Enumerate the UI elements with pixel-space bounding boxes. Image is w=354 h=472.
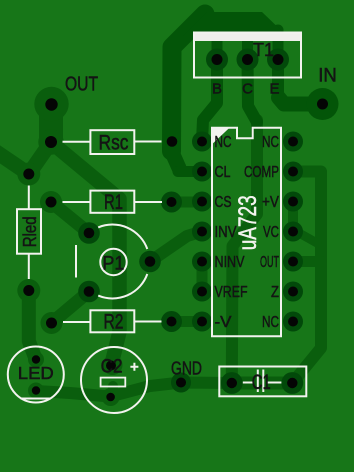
wire vertical to VC diagonal xyxy=(299,233,317,243)
svg-text:Rled: Rled xyxy=(20,216,40,247)
node IC pin12 land xyxy=(283,192,303,212)
wire inside C1 xyxy=(232,377,292,390)
pin C hole xyxy=(242,54,253,65)
node IC pin9 land xyxy=(283,282,303,302)
node IN hole xyxy=(317,99,328,110)
wire T1.E to IN pad xyxy=(272,60,284,95)
wire GND band LED.bottom to C1.left xyxy=(36,383,232,397)
wire COMP right vertical down to C1.right xyxy=(292,172,321,384)
node IC pin4 land xyxy=(192,222,212,242)
pin 12 hole xyxy=(288,197,298,207)
wire NINV to VREF xyxy=(197,262,208,292)
resistor Rled outline xyxy=(17,186,41,280)
svg-text:-V: -V xyxy=(215,314,232,331)
wire T1.C stub up xyxy=(242,30,253,60)
pin B hole xyxy=(212,54,223,65)
op-amp U1 uA723 outline xyxy=(212,128,281,337)
wire R1.left to P1 pad A xyxy=(51,202,89,233)
node R1.right land xyxy=(161,192,182,213)
node R2.left land xyxy=(41,312,63,334)
capacitor C2 outline xyxy=(81,347,147,413)
node GND land xyxy=(171,373,191,393)
node IC pin2 land xyxy=(192,162,212,182)
node P1.C land xyxy=(78,281,100,303)
svg-text:B: B xyxy=(212,81,222,98)
node LED.top hole xyxy=(32,355,40,363)
pin 13 hole xyxy=(288,167,298,177)
svg-text:NC: NC xyxy=(262,134,279,151)
node IC pin14 land xyxy=(283,132,303,152)
node C2.top land xyxy=(103,355,123,375)
node C1.right land xyxy=(281,372,303,394)
pin 4 hole xyxy=(197,227,207,237)
node P1.B land xyxy=(139,251,161,273)
svg-text:NINV: NINV xyxy=(215,254,245,271)
wire P1 pad B to IC INV xyxy=(150,232,202,262)
resistor Rsc outline xyxy=(63,130,162,154)
wire wide band from top blob to Rsc.right xyxy=(172,14,206,151)
pin 2 hole xyxy=(197,167,207,177)
potentiometer P1 outline xyxy=(76,225,147,299)
pin 1 hole xyxy=(197,137,207,147)
node IN land xyxy=(307,88,339,120)
wire R2.left to P1 pad C xyxy=(52,292,90,324)
svg-text:VREF: VREF xyxy=(215,284,248,301)
resistor R1 outline xyxy=(63,191,163,213)
wire OUT pin stub xyxy=(293,256,321,267)
wire T1.C down to under-IC vertical xyxy=(248,60,258,123)
node C1.left land xyxy=(221,372,243,394)
pad holes xyxy=(23,54,328,401)
node LED.bottom hole xyxy=(32,386,40,394)
resistor R2 outline xyxy=(63,310,162,332)
wire T1.E stub up xyxy=(273,30,284,60)
node Rsc.left land xyxy=(38,129,63,154)
copper blob top xyxy=(183,12,287,36)
capacitor C1 outline xyxy=(219,367,306,397)
node LED.bottom land xyxy=(28,383,44,399)
node C2.bottom land xyxy=(102,388,120,406)
wire C net under IC to C1.left xyxy=(232,120,257,383)
svg-text:+V: +V xyxy=(262,194,279,211)
node Rled.bottom land xyxy=(17,279,40,302)
light lands xyxy=(17,87,122,406)
node R2.right land xyxy=(161,311,182,332)
wire T1.B stub up xyxy=(212,30,223,60)
node GND hole xyxy=(176,378,186,388)
svg-text:GND: GND xyxy=(171,359,202,379)
wire Rled.bottom to LED.top xyxy=(29,291,36,361)
pin E hole xyxy=(273,54,284,65)
pin 8 hole xyxy=(288,317,298,327)
pin 6 hole xyxy=(197,287,207,297)
wire Rsc.left diagonal down to C2.top vertical xyxy=(52,143,120,358)
node IC pin7 land xyxy=(192,312,212,332)
svg-text:Z: Z xyxy=(271,284,279,301)
node IC pin13 land xyxy=(283,162,303,182)
node C1.left hole xyxy=(227,378,237,388)
node Rled.bottom hole xyxy=(23,285,34,296)
node T1.B land xyxy=(206,49,228,71)
wire -V to R2.right xyxy=(172,316,202,327)
svg-text:uA723: uA723 xyxy=(234,195,262,250)
svg-text:COMP: COMP xyxy=(244,164,279,181)
svg-text:OUT: OUT xyxy=(260,254,279,271)
node IC pin6 land xyxy=(192,282,212,302)
wire +V to VC xyxy=(288,202,298,232)
svg-text:E: E xyxy=(269,81,279,98)
node Rsc.right hole xyxy=(167,136,178,147)
wire C2.bottom stub xyxy=(108,386,118,395)
node T1.C land xyxy=(237,49,259,71)
wire board-edge to Rled.top xyxy=(0,149,29,174)
wire R1.right to CS xyxy=(172,197,202,208)
node C1.right hole xyxy=(287,378,297,388)
node Rled.top hole xyxy=(23,169,34,180)
svg-text:Rsc: Rsc xyxy=(99,132,129,155)
node C2.bottom hole xyxy=(106,393,115,402)
pin 7 hole xyxy=(197,317,207,327)
wire branch to CL xyxy=(171,150,179,168)
svg-text:CS: CS xyxy=(215,194,232,211)
svg-text:C: C xyxy=(242,81,253,98)
svg-text:R2: R2 xyxy=(104,311,124,334)
wire OUT pad to Rsc.left xyxy=(39,105,63,142)
silkscreen xyxy=(8,33,307,414)
node IC pin10 land xyxy=(283,252,303,272)
node IC pin3 land xyxy=(192,192,212,212)
LED outline xyxy=(8,347,64,403)
svg-text:C2: C2 xyxy=(101,357,123,378)
svg-text:NC: NC xyxy=(262,314,279,331)
svg-text:VC: VC xyxy=(263,224,279,241)
node P1.A hole xyxy=(84,228,95,239)
wire Rsc.left to Rled.top xyxy=(29,142,51,174)
node R2.right hole xyxy=(167,317,177,327)
node Rsc.left hole xyxy=(45,136,57,148)
pin 11 hole xyxy=(288,227,298,237)
svg-text:C1: C1 xyxy=(252,371,271,394)
node IC pin11 land xyxy=(283,222,303,242)
node P1.A land xyxy=(78,222,100,244)
node LED.top land xyxy=(28,352,44,368)
svg-text:CL: CL xyxy=(215,164,231,181)
svg-text:IN: IN xyxy=(318,66,337,87)
dark lands xyxy=(78,49,303,394)
node Rled.top land xyxy=(17,163,40,186)
connector T1 outline xyxy=(194,33,301,78)
svg-text:NC: NC xyxy=(215,134,232,151)
node R1.left hole xyxy=(46,197,57,208)
node R1.left land xyxy=(40,191,62,213)
node R1.right hole xyxy=(167,197,177,207)
wire T1.B down to IC pin1 xyxy=(202,60,217,142)
pin 10 hole xyxy=(288,257,298,267)
pin 5 hole xyxy=(197,257,207,267)
pin 9 hole xyxy=(288,287,298,297)
node OUT land xyxy=(34,87,68,121)
node IC pin1 land xyxy=(192,132,212,152)
node OUT hole xyxy=(45,98,57,110)
svg-text:P1: P1 xyxy=(102,253,124,275)
svg-text:OUT: OUT xyxy=(65,74,98,96)
svg-text:T1: T1 xyxy=(253,40,274,60)
node P1.C hole xyxy=(84,286,95,297)
node R2.left hole xyxy=(46,318,57,329)
node C2.top hole xyxy=(106,361,116,371)
pin 3 hole xyxy=(197,197,207,207)
svg-text:LED: LED xyxy=(18,363,54,383)
node T1.E land xyxy=(267,49,289,71)
node P1.B hole xyxy=(145,256,156,267)
svg-text:R1: R1 xyxy=(104,191,123,214)
pin 14 hole xyxy=(288,137,298,147)
node IC pin5 land xyxy=(192,252,212,272)
node IC pin8 land xyxy=(283,312,303,332)
